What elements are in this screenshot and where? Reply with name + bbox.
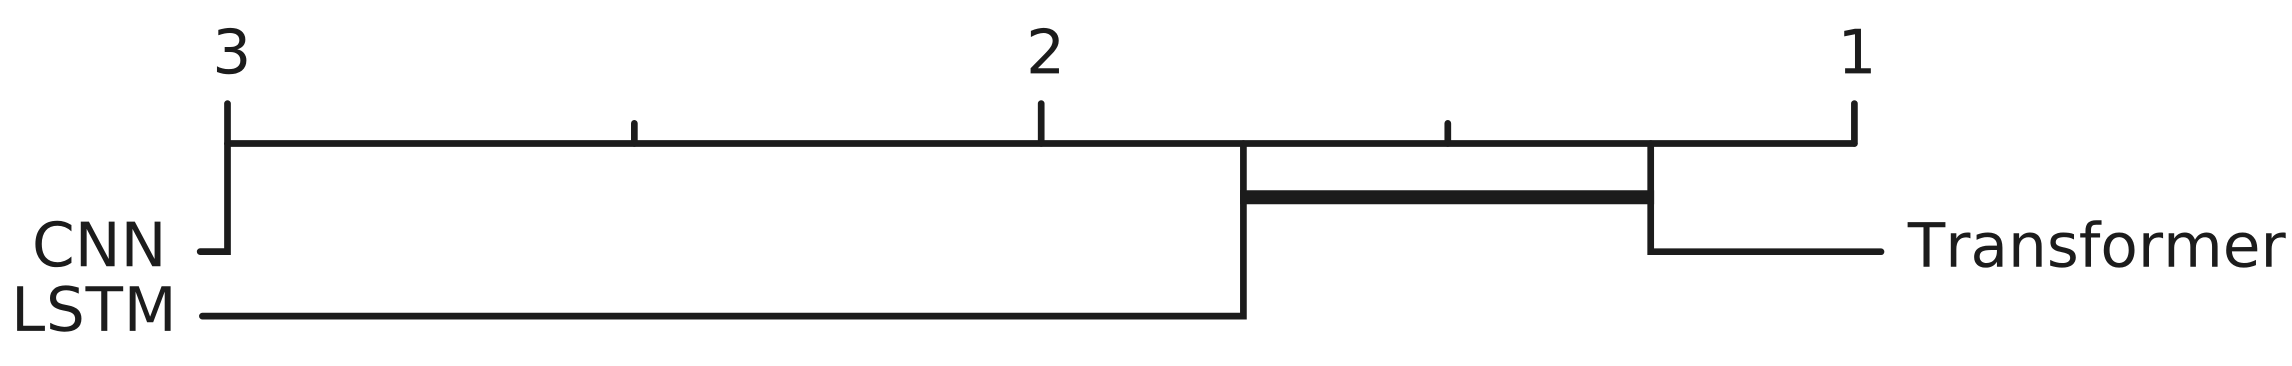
- label Transformer: [1908, 220, 2286, 267]
- major tick at rank 1: [1851, 104, 1858, 144]
- label LSTM: [17, 285, 170, 331]
- label CNN: [35, 221, 160, 267]
- minor tick at rank 1.5: [1444, 123, 1451, 143]
- Transformer rank marker line (rank 1.25): [1651, 144, 1881, 252]
- tick label 1: [1844, 29, 1871, 74]
- major tick at rank 3: [224, 104, 231, 144]
- tick label 3: [217, 28, 246, 74]
- tick label 2: [1031, 28, 1059, 74]
- LSTM rank marker line (rank 1.75): [202, 144, 1243, 317]
- clique bar connecting LSTM and Transformer (no significant difference): [1240, 190, 1654, 204]
- minor tick at rank 2.5: [631, 123, 638, 143]
- major tick at rank 2: [1038, 104, 1045, 144]
- axis line (rank scale 3 to 1): [228, 140, 1855, 147]
- CNN rank marker line (rank 3.0): [200, 144, 227, 252]
